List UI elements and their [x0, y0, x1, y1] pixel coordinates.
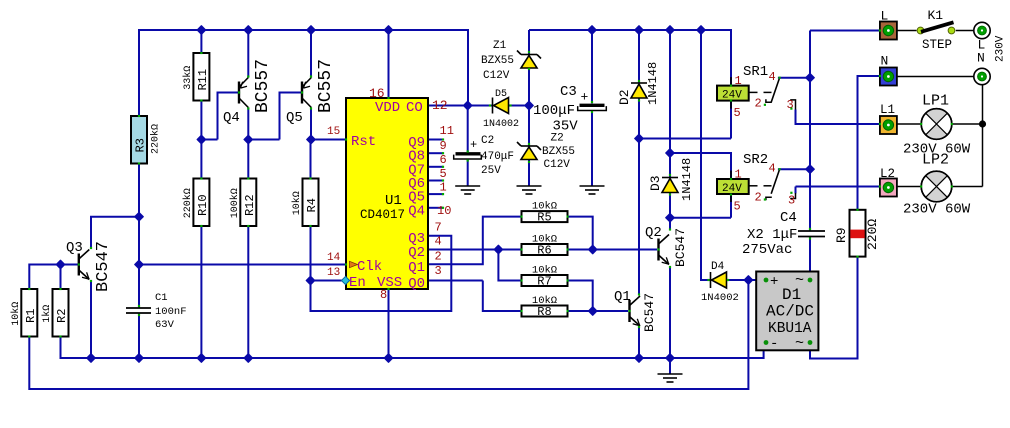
svg-text:13: 13 — [327, 267, 340, 279]
svg-text:Q4: Q4 — [408, 203, 425, 219]
svg-text:3: 3 — [435, 264, 442, 278]
svg-text:11: 11 — [440, 124, 454, 138]
svg-text:D5: D5 — [495, 89, 507, 100]
svg-text:63V: 63V — [155, 319, 175, 331]
svg-text:100nF: 100nF — [155, 306, 187, 318]
svg-text:D1: D1 — [782, 286, 801, 304]
svg-text:+: + — [770, 274, 778, 290]
svg-text:N: N — [881, 54, 889, 69]
svg-text:Q1: Q1 — [614, 289, 631, 305]
svg-text:275Vac: 275Vac — [742, 242, 792, 258]
svg-text:BC557: BC557 — [316, 59, 336, 113]
svg-text:1: 1 — [440, 181, 447, 195]
svg-text:Q2: Q2 — [645, 225, 662, 241]
svg-text:3: 3 — [787, 98, 794, 112]
svg-text:R6: R6 — [537, 244, 551, 258]
svg-text:2: 2 — [755, 97, 762, 111]
svg-text:SR2: SR2 — [743, 152, 768, 168]
svg-text:D3: D3 — [648, 175, 663, 191]
svg-text:R4: R4 — [305, 198, 319, 212]
svg-text:5: 5 — [734, 106, 741, 120]
svg-text:D2: D2 — [617, 89, 632, 105]
svg-text:-: - — [770, 336, 778, 352]
svg-text:CD4017: CD4017 — [360, 208, 405, 222]
svg-text:En: En — [349, 275, 366, 291]
svg-text:SR1: SR1 — [743, 64, 768, 80]
svg-text:Z2: Z2 — [551, 133, 564, 145]
svg-text:24V: 24V — [722, 90, 742, 102]
svg-text:Z1: Z1 — [493, 40, 507, 52]
svg-text:220kΩ: 220kΩ — [182, 188, 194, 218]
svg-text:R7: R7 — [537, 275, 551, 289]
svg-text:6: 6 — [440, 153, 447, 167]
svg-text:1N4002: 1N4002 — [701, 292, 739, 304]
svg-text:470μF: 470μF — [481, 151, 514, 163]
svg-text:9: 9 — [440, 139, 447, 153]
svg-text:230V: 230V — [995, 35, 1007, 62]
svg-text:L2: L2 — [880, 167, 895, 181]
svg-text:220Ω: 220Ω — [865, 219, 880, 250]
svg-text:X2 1μF: X2 1μF — [747, 227, 797, 243]
svg-text:1: 1 — [735, 74, 742, 88]
svg-text:Q1: Q1 — [408, 260, 425, 276]
svg-text:C12V: C12V — [483, 70, 510, 82]
svg-text:Q0: Q0 — [408, 276, 425, 292]
svg-text:C1: C1 — [155, 292, 168, 304]
svg-text:230V 60W: 230V 60W — [903, 202, 971, 218]
svg-text:C12V: C12V — [544, 159, 571, 171]
svg-text:BC547: BC547 — [673, 228, 688, 267]
svg-text:10kΩ: 10kΩ — [291, 191, 303, 215]
svg-text:BZX55: BZX55 — [481, 55, 514, 67]
svg-text:C2: C2 — [481, 135, 494, 147]
svg-text:VDD: VDD — [375, 100, 400, 116]
svg-text:Q2: Q2 — [408, 245, 425, 261]
svg-text:L1: L1 — [880, 103, 895, 117]
svg-text:BZX55: BZX55 — [542, 146, 575, 158]
svg-text:STEP: STEP — [922, 38, 952, 52]
svg-text:+: + — [581, 90, 589, 105]
svg-text:U1: U1 — [385, 193, 402, 209]
svg-text:5: 5 — [440, 167, 447, 181]
svg-text:10kΩ: 10kΩ — [532, 234, 557, 246]
svg-text:R3: R3 — [134, 138, 148, 152]
svg-text:R11: R11 — [196, 69, 210, 91]
svg-text:R10: R10 — [196, 194, 210, 216]
svg-text:2: 2 — [755, 191, 762, 205]
svg-text:KBU1A: KBU1A — [768, 321, 812, 337]
svg-text:BC547: BC547 — [642, 293, 657, 332]
svg-text:CO: CO — [406, 100, 423, 116]
svg-text:10kΩ: 10kΩ — [532, 265, 557, 277]
svg-text:10kΩ: 10kΩ — [10, 302, 22, 326]
svg-text:K1: K1 — [928, 8, 944, 23]
svg-text:33kΩ: 33kΩ — [182, 66, 194, 90]
svg-text:25V: 25V — [481, 165, 501, 177]
svg-text:C3: C3 — [560, 84, 577, 100]
svg-text:15: 15 — [327, 126, 340, 138]
svg-text:3: 3 — [788, 194, 795, 208]
svg-text:C4: C4 — [780, 210, 797, 226]
svg-text:10: 10 — [437, 204, 451, 218]
svg-text:220kΩ: 220kΩ — [150, 124, 162, 154]
svg-text:14: 14 — [327, 252, 341, 264]
svg-text:24V: 24V — [722, 183, 742, 195]
svg-text:8: 8 — [380, 288, 387, 302]
svg-text:100μF: 100μF — [533, 103, 575, 119]
svg-text:Q5: Q5 — [286, 110, 303, 126]
svg-text:LP1: LP1 — [922, 93, 949, 110]
svg-text:Rst: Rst — [351, 134, 376, 150]
svg-text:Q4: Q4 — [223, 110, 240, 126]
svg-text:R5: R5 — [537, 211, 551, 225]
svg-text:5: 5 — [734, 200, 741, 214]
svg-text:N: N — [977, 51, 985, 66]
svg-text:Q3: Q3 — [66, 240, 83, 256]
svg-text:R9: R9 — [834, 227, 849, 243]
svg-text:R8: R8 — [537, 305, 551, 319]
svg-text:L: L — [881, 9, 889, 24]
svg-text:10kΩ: 10kΩ — [532, 295, 557, 307]
svg-text:R1: R1 — [24, 309, 38, 323]
svg-text:1N4148: 1N4148 — [646, 62, 660, 105]
svg-text:1N4002: 1N4002 — [483, 119, 519, 130]
svg-text:4: 4 — [769, 162, 776, 176]
svg-text:4: 4 — [769, 70, 776, 84]
svg-text:4: 4 — [435, 235, 442, 249]
svg-text:+: + — [470, 138, 477, 152]
svg-text:100kΩ: 100kΩ — [229, 188, 241, 218]
svg-text:1: 1 — [735, 168, 742, 182]
svg-text:R2: R2 — [55, 309, 69, 323]
svg-text:1kΩ: 1kΩ — [41, 305, 53, 323]
svg-text:D4: D4 — [711, 261, 725, 273]
svg-text:10kΩ: 10kΩ — [532, 201, 557, 213]
svg-text:7: 7 — [435, 221, 442, 235]
svg-text:AC/DC: AC/DC — [766, 303, 814, 321]
svg-text:R12: R12 — [243, 194, 257, 216]
svg-text:~: ~ — [795, 335, 804, 352]
svg-text:2: 2 — [435, 250, 442, 264]
svg-text:12: 12 — [432, 98, 448, 113]
svg-text:LP2: LP2 — [922, 152, 949, 169]
svg-text:BC557: BC557 — [253, 59, 273, 113]
svg-text:1N4148: 1N4148 — [680, 158, 694, 201]
svg-text:Clk: Clk — [357, 259, 382, 275]
svg-text:16: 16 — [369, 86, 385, 101]
svg-text:BC547: BC547 — [94, 241, 113, 292]
